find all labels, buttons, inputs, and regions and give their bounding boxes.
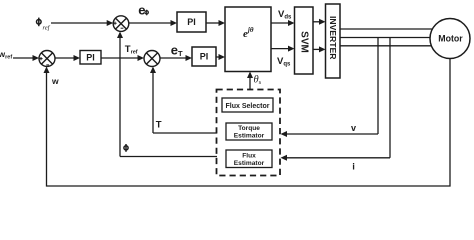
wire Vqs e^jtheta to SVM bbox=[271, 48, 290, 50]
svg-text:Estimator: Estimator bbox=[234, 160, 265, 167]
block flux estimator bbox=[226, 150, 272, 168]
arrowhead into T junction bbox=[138, 55, 145, 61]
PI block speed bbox=[80, 51, 101, 65]
summing junction phi (flux) bbox=[113, 16, 129, 32]
arrowhead i into flux estimator bbox=[281, 155, 288, 161]
block SVM bbox=[295, 7, 314, 74]
arrowhead into w junction bbox=[33, 55, 40, 61]
block torque estimator bbox=[226, 123, 272, 140]
arrowhead v into torque estimator bbox=[281, 131, 288, 137]
label phi feedback bbox=[124, 144, 128, 152]
wire SVM to INVERTER top bbox=[313, 21, 321, 23]
wire w feedback from motor bbox=[47, 59, 451, 187]
arrowhead phi up into phi junction bbox=[117, 32, 123, 39]
dashed estimator box bbox=[217, 90, 281, 176]
arrowhead theta_s up into e^jtheta bbox=[247, 72, 253, 79]
svg-text:PI: PI bbox=[200, 52, 209, 62]
svg-text:Estimator: Estimator bbox=[234, 133, 265, 140]
wire i horizontal into flux estimator bbox=[286, 157, 390, 159]
svg-text:Flux Selector: Flux Selector bbox=[226, 103, 270, 110]
wire PI2 to e^jtheta bbox=[216, 56, 221, 58]
svg-text:w: w bbox=[51, 76, 59, 86]
summing junction w (speed) bbox=[39, 51, 55, 67]
wire i tap vertical bbox=[389, 38, 391, 158]
block e^jtheta U1 bbox=[225, 7, 271, 72]
label phi_ref bbox=[37, 18, 42, 27]
wire w junction to speed PI bbox=[55, 57, 76, 59]
wire theta_s from flux selector to e^jtheta bbox=[249, 76, 251, 90]
PI block flux (PI1) bbox=[177, 12, 206, 32]
svg-text:Motor: Motor bbox=[438, 33, 463, 43]
arrowhead into e^jtheta top bbox=[219, 20, 226, 26]
wire w_ref to w junction bbox=[13, 57, 35, 59]
svg-text:T: T bbox=[178, 49, 183, 58]
wire phi_ref to phi junction bbox=[51, 22, 109, 24]
arrowhead into PI1 bbox=[171, 20, 178, 26]
wire T junction to PI2 bbox=[160, 57, 188, 59]
svg-text:SVM: SVM bbox=[299, 31, 310, 53]
arrowhead into e^jtheta bottom bbox=[219, 54, 226, 60]
svg-text:e: e bbox=[138, 2, 145, 17]
arrowhead into PI2 bbox=[186, 55, 193, 61]
svg-text:ref: ref bbox=[43, 25, 51, 32]
arrowhead into INVERTER top bbox=[319, 19, 326, 25]
wire v tap vertical bbox=[377, 38, 379, 135]
wire three-phase line b bbox=[340, 37, 430, 39]
svg-text:e: e bbox=[171, 43, 178, 58]
motor M1 bbox=[430, 19, 470, 59]
summing junction T (torque) bbox=[144, 51, 160, 67]
svg-text:Flux: Flux bbox=[242, 152, 256, 159]
svg-text:T: T bbox=[156, 119, 162, 130]
wire T feedback vertical bbox=[152, 71, 154, 133]
arrowhead into speed PI bbox=[74, 55, 81, 61]
arrowhead T up into T junction bbox=[150, 67, 156, 74]
PI block torque (PI2) bbox=[192, 47, 216, 66]
arrowhead into INVERTER bottom bbox=[319, 46, 326, 52]
arrowhead into SVM top bbox=[288, 20, 295, 26]
arrowhead w up into w junction bbox=[44, 67, 50, 74]
block INVERTER bbox=[326, 4, 341, 78]
arrowhead into phi junction bbox=[107, 20, 114, 26]
svg-text:PI: PI bbox=[187, 17, 196, 27]
wire phi feedback vertical bbox=[119, 36, 121, 157]
wire T feedback horizontal bbox=[153, 132, 217, 134]
svg-text:PI: PI bbox=[86, 53, 95, 63]
arrowhead into SVM bottom bbox=[288, 46, 295, 52]
svg-text:i: i bbox=[352, 162, 355, 173]
block flux selector bbox=[222, 98, 273, 112]
wire phi feedback horizontal bbox=[120, 156, 217, 158]
wire SVM to INVERTER bottom bbox=[313, 48, 321, 50]
wire Vds e^jtheta to SVM bbox=[271, 22, 290, 24]
svg-text:v: v bbox=[351, 123, 356, 133]
wire speed PI to T junction bbox=[101, 57, 140, 59]
wire v horizontal into torque estimator bbox=[286, 133, 378, 135]
wire three-phase line c bbox=[340, 45, 432, 47]
svg-text:INVERTER: INVERTER bbox=[328, 16, 338, 60]
svg-text:Torque: Torque bbox=[238, 125, 260, 132]
wire phi junction to PI1 bbox=[129, 22, 173, 24]
wire three-phase line a bbox=[340, 28, 433, 30]
wire PI1 to e^jtheta bbox=[206, 22, 221, 24]
